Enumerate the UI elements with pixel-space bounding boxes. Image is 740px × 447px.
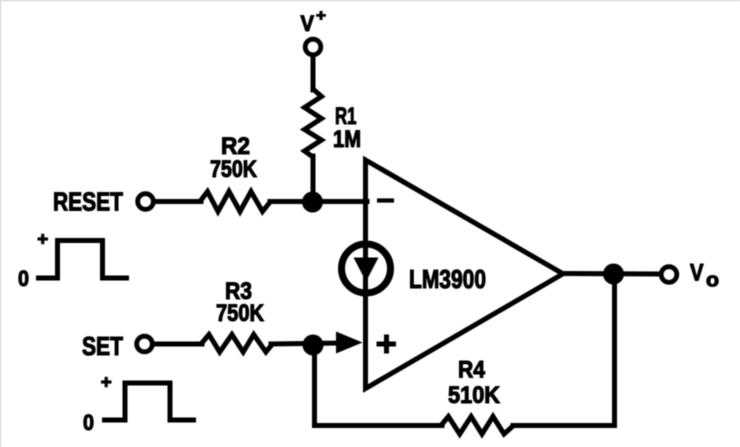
svg-text:0: 0 xyxy=(18,266,29,291)
svg-text:LM3900: LM3900 xyxy=(409,264,486,294)
svg-text:750K: 750K xyxy=(216,300,265,327)
svg-text:o: o xyxy=(706,270,719,292)
svg-text:V: V xyxy=(301,11,315,36)
svg-text:750K: 750K xyxy=(210,156,258,183)
svg-text:SET: SET xyxy=(82,331,123,361)
svg-text:RESET: RESET xyxy=(53,187,123,217)
svg-text:+: + xyxy=(316,8,326,25)
svg-text:1M: 1M xyxy=(333,126,361,153)
svg-text:510K: 510K xyxy=(448,382,501,409)
svg-text:0: 0 xyxy=(83,410,94,435)
svg-text:V: V xyxy=(690,260,704,287)
svg-text:R4: R4 xyxy=(458,357,486,384)
